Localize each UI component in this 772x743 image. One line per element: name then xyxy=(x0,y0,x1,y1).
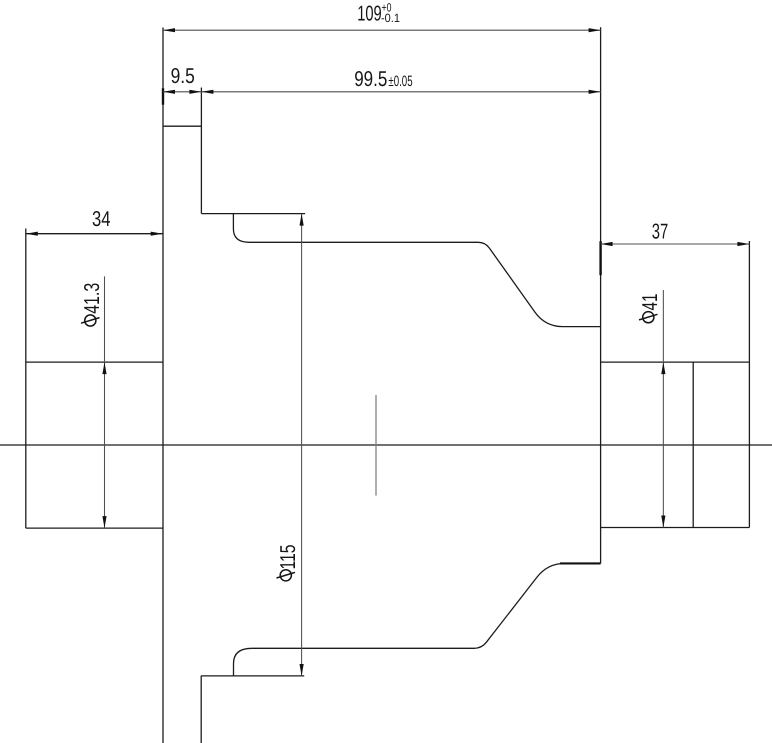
svg-text:34: 34 xyxy=(92,207,111,231)
svg-text:9.5: 9.5 xyxy=(171,64,195,88)
svg-text:99.5: 99.5 xyxy=(354,67,387,91)
svg-text:-0.1: -0.1 xyxy=(381,11,400,25)
svg-text:±0.05: ±0.05 xyxy=(388,73,412,90)
svg-text:41: 41 xyxy=(638,294,662,311)
svg-text:41.3: 41.3 xyxy=(80,283,104,314)
svg-text:109: 109 xyxy=(357,1,382,25)
svg-text:37: 37 xyxy=(652,220,669,244)
svg-text:115: 115 xyxy=(276,544,300,569)
